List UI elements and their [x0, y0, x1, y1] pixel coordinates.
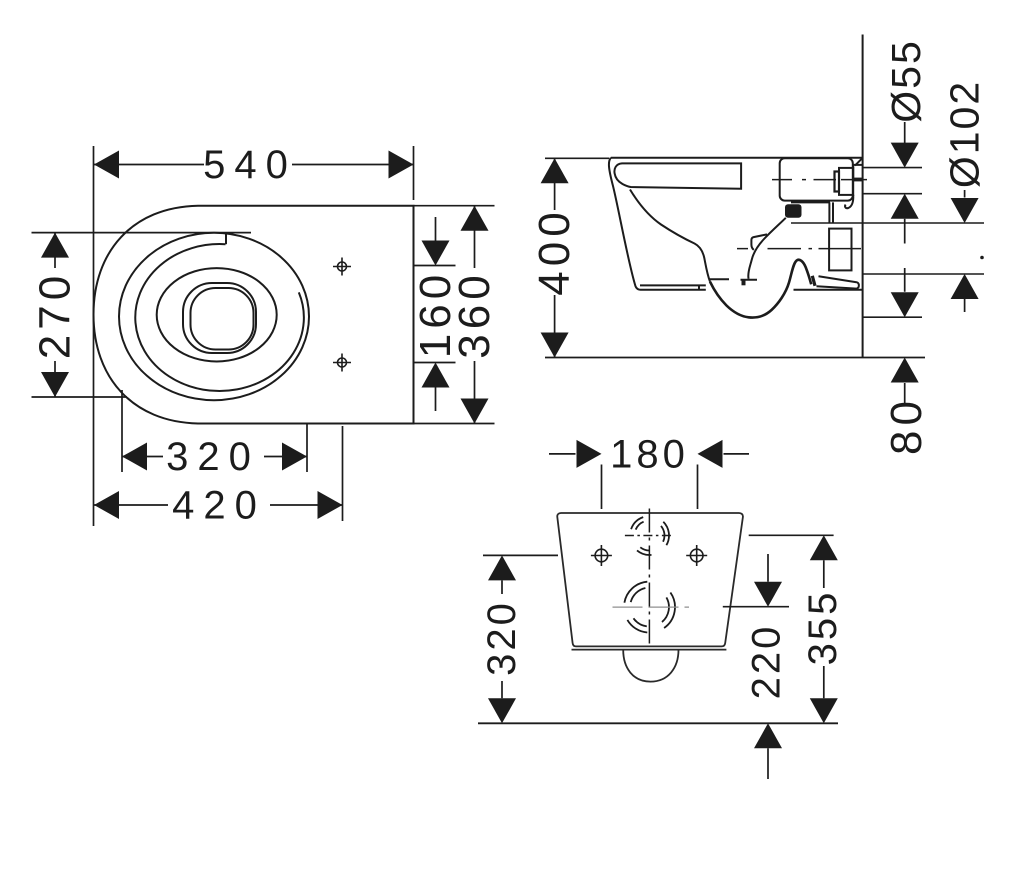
svg-text:180: 180 [610, 432, 689, 476]
svg-text:320: 320 [480, 600, 524, 676]
flush pipe body [839, 168, 853, 195]
rear body trapezoid [557, 513, 743, 646]
dimension 540 [94, 146, 414, 526]
bracket lines [791, 202, 833, 223]
plan body outline [94, 206, 414, 424]
dimension 180 [549, 440, 749, 509]
drain semicircle [623, 650, 678, 682]
upper circle centerline [625, 535, 674, 537]
bowl opening D [183, 283, 256, 353]
rear centerline vertical [648, 509, 650, 647]
svg-text:270: 270 [31, 271, 80, 359]
svg-text:355: 355 [801, 590, 845, 666]
lower outlet circles dashed [624, 582, 675, 633]
tank bottom hook [845, 195, 853, 208]
seat outer ellipse A [119, 233, 309, 400]
dimension 160 [414, 217, 456, 411]
seat hinge black [785, 204, 802, 218]
rim bottom double line [640, 285, 706, 289]
floor line [545, 357, 925, 359]
dimension 355 [749, 535, 838, 723]
flush centerline [772, 179, 867, 181]
outlet block [829, 229, 851, 271]
svg-text:80: 80 [882, 396, 931, 455]
dimension 420 [94, 426, 343, 521]
lower circle centerline [613, 606, 690, 608]
svg-text:Ø55: Ø55 [883, 39, 929, 123]
channel blob [742, 280, 746, 285]
svg-text:400: 400 [530, 207, 579, 295]
base strip [572, 649, 727, 651]
pipe dark band [853, 178, 862, 182]
mounting hole top [333, 258, 351, 276]
upper flush circles dashed [631, 517, 669, 555]
dimension 320 rear [483, 555, 558, 723]
dimension 360 [414, 206, 495, 424]
wall line [862, 35, 864, 358]
dimension D55 [891, 122, 919, 244]
svg-text:220: 220 [745, 624, 789, 700]
flush pipe wall stub [853, 165, 862, 182]
bowl front edge [609, 158, 641, 290]
dimension D102 [951, 190, 979, 312]
svg-text:320: 320 [166, 435, 260, 479]
rear hole right [686, 545, 707, 566]
tank block [780, 158, 853, 200]
stray centerline dot [980, 256, 984, 260]
bowl top line [611, 157, 863, 159]
seat step [225, 233, 227, 244]
svg-text:420: 420 [172, 484, 266, 528]
dimension 400 [541, 158, 609, 357]
dimension 320 [122, 390, 307, 472]
inner bowl curve [630, 190, 710, 282]
svg-text:360: 360 [450, 270, 499, 358]
svg-text:Ø102: Ø102 [942, 80, 988, 188]
bowl rim ellipse C [157, 268, 277, 361]
drain outline E [191, 288, 254, 350]
outlet bottom line [794, 289, 863, 291]
water weir flag [751, 234, 767, 250]
trap U and hump [710, 260, 811, 318]
mounting hole bottom [333, 354, 351, 372]
svg-text:540: 540 [203, 143, 297, 187]
rear floor line [478, 722, 838, 724]
outlet centerline [737, 248, 861, 250]
seat inner ellipse B [135, 244, 304, 391]
dimension 80 [891, 268, 919, 404]
weir dark tick [812, 276, 815, 286]
REAR VIEW [557, 513, 743, 682]
seat slab [614, 163, 741, 188]
wall wedge [855, 158, 863, 166]
outlet slanted pipe [817, 276, 859, 288]
trap front wall [748, 218, 786, 279]
dimension 270 [32, 233, 252, 397]
right extension lines [791, 168, 984, 318]
channel ticks [710, 278, 758, 281]
dimension 220 [723, 554, 789, 779]
PLAN VIEW [94, 206, 414, 424]
flush pipe flange [835, 172, 840, 192]
rear hole left [591, 545, 612, 566]
